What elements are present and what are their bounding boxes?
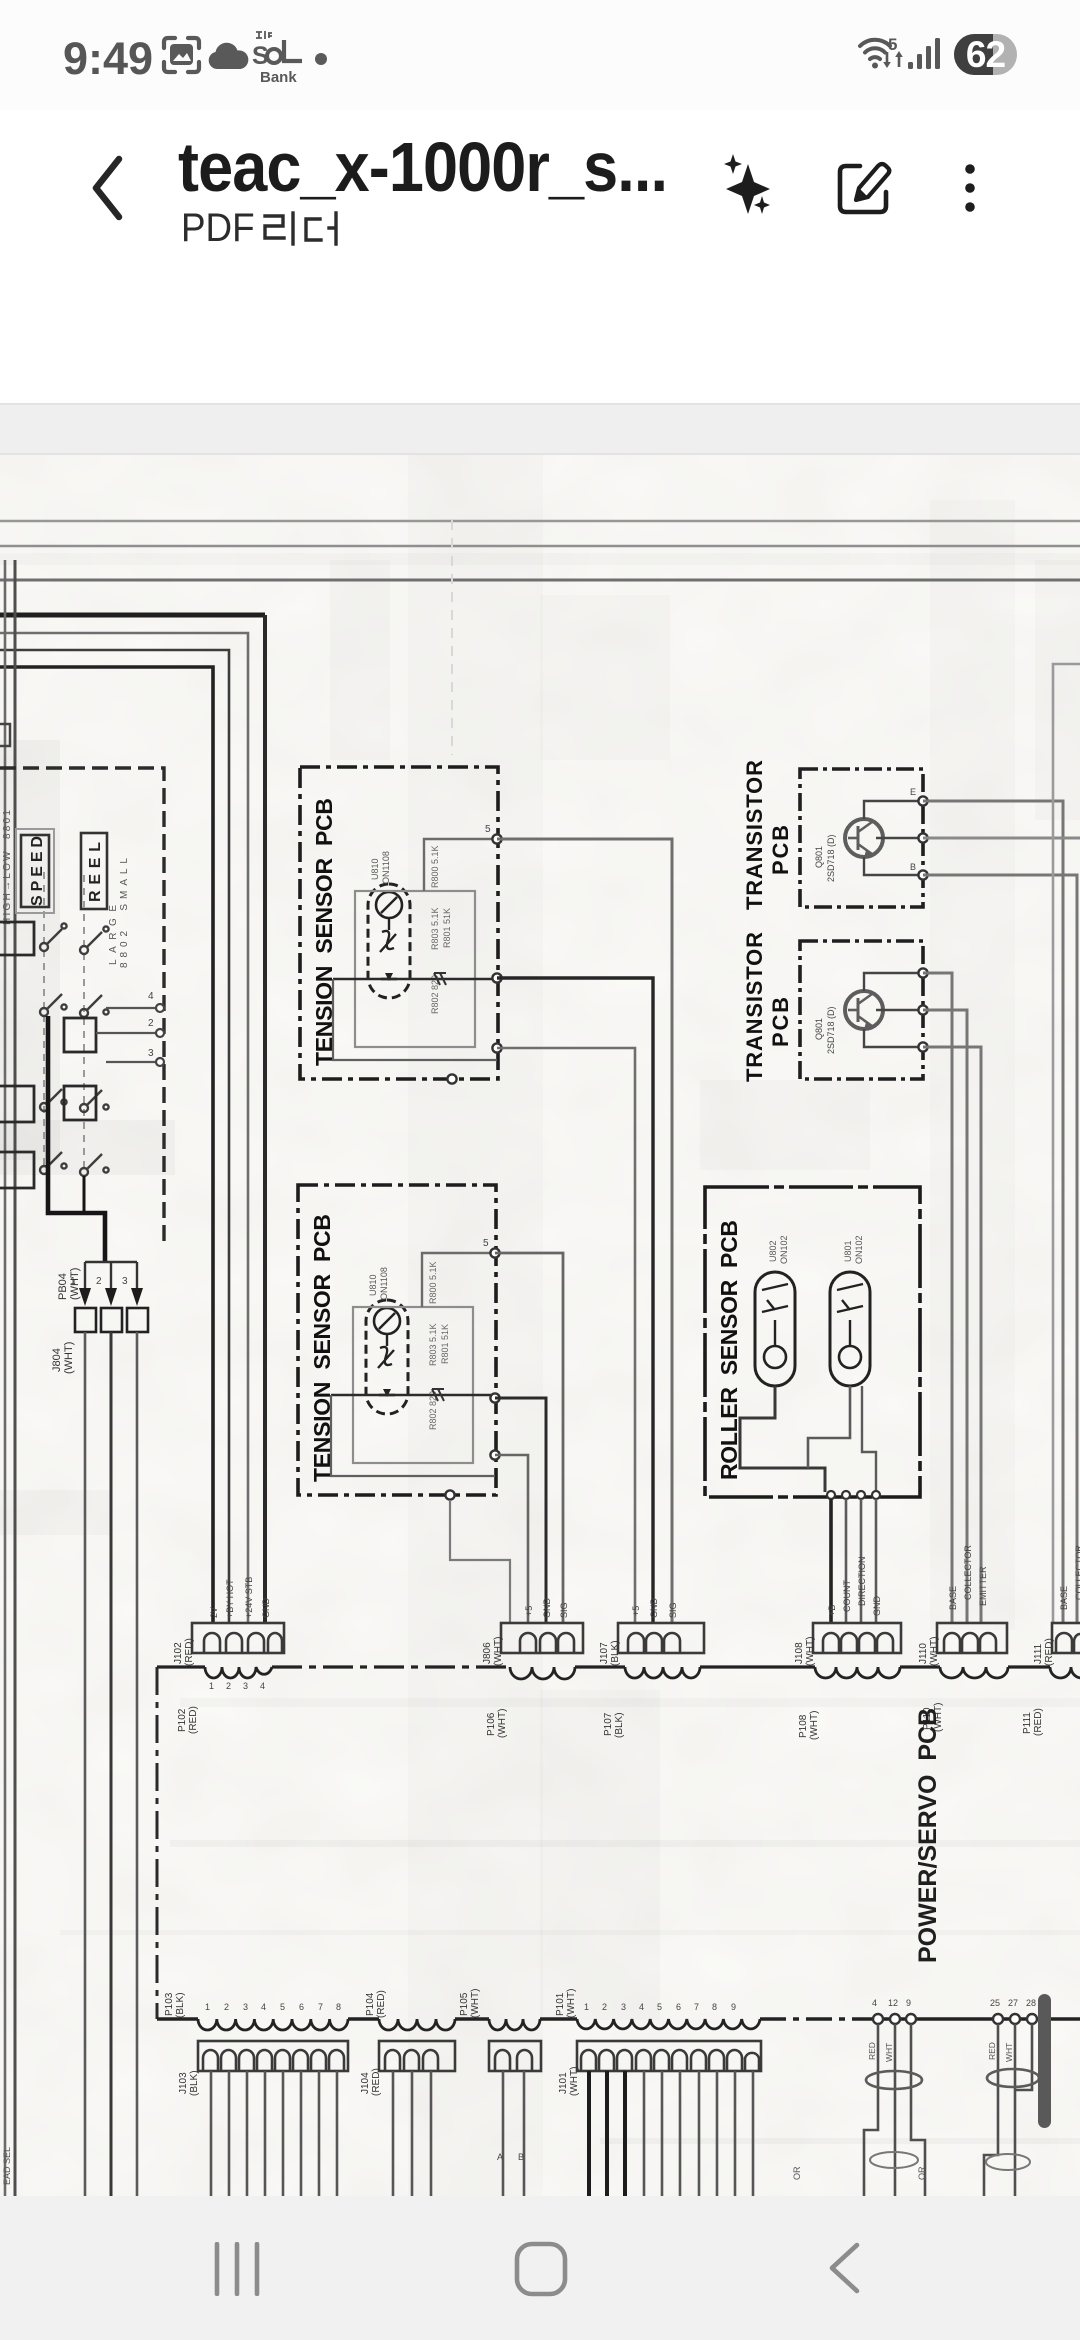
bias network frame R800/R801/R803 xyxy=(355,891,475,1047)
SOL Bank logo xyxy=(250,28,310,86)
svg-text:A: A xyxy=(497,2152,503,2162)
opto sensor U801 capsule xyxy=(830,1272,870,1386)
connector J110 (WHT) xyxy=(937,1623,1007,1653)
svg-text:9: 9 xyxy=(906,1998,911,2008)
light scan streaks xyxy=(0,455,1080,2200)
svg-text:(WHT): (WHT) xyxy=(63,1342,75,1374)
svg-text:SPEED: SPEED xyxy=(29,836,46,906)
svg-text:P108: P108 xyxy=(798,1714,809,1738)
wire Q801 base to J111 xyxy=(923,875,1077,1624)
svg-text:B: B xyxy=(910,862,916,872)
connector J101 (WHT) xyxy=(577,2041,761,2071)
svg-text:J101: J101 xyxy=(558,2072,569,2094)
svg-text:TRANSISTOR: TRANSISTOR xyxy=(742,760,767,910)
switch pole dashed stems xyxy=(43,872,45,1168)
edge coils P104 xyxy=(379,2019,455,2030)
wire GND corner to J102 pin4 xyxy=(0,613,265,618)
wire from J804 pin3 down xyxy=(136,1332,139,2196)
signal bars xyxy=(908,36,944,70)
switch assembly dashed enclosure xyxy=(0,768,164,1248)
wire tension1 pin3 to J107 +5 xyxy=(497,1048,635,1624)
wire tension1 pin5 to J107 SIG xyxy=(497,839,672,1624)
J102 pin numbers xyxy=(209,1681,265,1691)
edge coils P101 xyxy=(577,2019,760,2029)
svg-text:4: 4 xyxy=(261,2002,266,2012)
wire +24V STB corner to J102 pin3 xyxy=(0,633,248,1624)
svg-text:2: 2 xyxy=(226,1681,231,1691)
J104 wires down xyxy=(393,2071,431,2196)
transistor Q801 xyxy=(845,819,883,857)
svg-text:28: 28 xyxy=(1026,1998,1036,2008)
wifi xyxy=(857,34,909,76)
switch S801 SPEED label xyxy=(16,829,54,913)
wire from J804 pin2 down xyxy=(110,1332,113,2196)
svg-text:(WHT): (WHT) xyxy=(493,1637,504,1666)
wire tension2 pin1 down xyxy=(450,1500,510,1624)
wires to enclosure pins xyxy=(96,1008,156,1062)
svg-text:TRANSISTOR: TRANSISTOR xyxy=(742,932,767,1082)
wire from right edge down xyxy=(1053,664,1080,1624)
svg-text:SIG: SIG xyxy=(559,1602,569,1618)
svg-text:(RED): (RED) xyxy=(184,1638,195,1666)
svg-text:WHT: WHT xyxy=(884,2043,894,2062)
svg-text:6: 6 xyxy=(676,2002,681,2012)
wire tension2 pin2 to J806 GND xyxy=(495,1398,546,1624)
roller bottom pins xyxy=(827,1491,880,1499)
J105 wires down xyxy=(503,2071,524,2196)
wire roller COUNT to J108 xyxy=(845,1499,848,1624)
wire +BY HOT corner to J102 pin2 xyxy=(0,650,229,1624)
wire tension2 pin3 to J806 +5 xyxy=(495,1455,528,1624)
svg-text:(WHT): (WHT) xyxy=(470,1989,481,2018)
roller internal step wires xyxy=(740,1386,825,1492)
pdf scrollbar xyxy=(1038,1994,1051,2128)
svg-text:+5: +5 xyxy=(631,1606,641,1616)
svg-text:+BY HOT: +BY HOT xyxy=(225,1579,235,1618)
svg-text:GND: GND xyxy=(872,1596,882,1617)
svg-text:J104: J104 xyxy=(360,2072,371,2094)
bias network frame (lower) xyxy=(353,1307,473,1463)
svg-text:2: 2 xyxy=(224,2002,229,2012)
battery pill xyxy=(954,34,1017,75)
svg-text:1: 1 xyxy=(584,2002,589,2012)
svg-text:Q801: Q801 xyxy=(814,1018,824,1040)
small stub box top-left xyxy=(0,724,10,746)
svg-text:(BLK): (BLK) xyxy=(175,1992,186,2018)
svg-text:HIGH→LOW 8801: HIGH→LOW 8801 xyxy=(2,810,13,925)
svg-text:2V: 2V xyxy=(209,1607,219,1618)
svg-text:8: 8 xyxy=(712,2002,717,2012)
svg-text:GND: GND xyxy=(649,1598,659,1619)
pin 3 xyxy=(492,1043,501,1052)
connector J102 (RED) xyxy=(192,1623,284,1653)
wire Q801-2 emitter to J110 BASE column xyxy=(923,973,952,1624)
sparkle icon xyxy=(718,152,778,222)
svg-text:(WHT): (WHT) xyxy=(805,1637,816,1666)
opto sensor U810 capsule xyxy=(368,884,410,998)
internal wire emitter row xyxy=(333,978,497,981)
svg-text:Bank: Bank xyxy=(260,69,297,86)
wire Q801-2 base to J110 xyxy=(923,1047,981,1624)
Q801 pin wires internal xyxy=(864,801,921,875)
power/servo PCB top edge segments xyxy=(157,1665,1050,1668)
svg-text:RED: RED xyxy=(987,2042,997,2060)
faint lower-left second ellipse xyxy=(870,2152,918,2168)
svg-text:(WHT): (WHT) xyxy=(569,2067,580,2096)
svg-text:4: 4 xyxy=(148,991,154,1002)
pin 3 (lower) xyxy=(490,1450,499,1459)
wire 2V corner to J102 pin1 xyxy=(0,667,213,1624)
connector J107 (BLK) xyxy=(618,1623,704,1653)
svg-text:DIRECTION: DIRECTION xyxy=(857,1557,867,1607)
power/servo PCB left edge xyxy=(156,1667,159,2019)
cable bundle ellipse left xyxy=(866,2071,922,2089)
svg-text:+24V STB: +24V STB xyxy=(244,1577,254,1618)
svg-text:P107: P107 xyxy=(603,1712,614,1736)
svg-text:(WHT): (WHT) xyxy=(566,1989,577,2018)
connector J105 (WHT) xyxy=(489,2041,541,2071)
svg-text:U802: U802 xyxy=(768,1240,778,1262)
svg-text:(RED): (RED) xyxy=(188,1706,199,1734)
edge coils J108 xyxy=(815,1667,900,1678)
svg-text:(WHT): (WHT) xyxy=(809,1711,820,1740)
wire tension2 pin5 to J806 SIG xyxy=(495,1253,563,1624)
svg-text:P104: P104 xyxy=(365,1992,376,2016)
svg-text:12: 12 xyxy=(888,1998,898,2008)
svg-text:COUNT: COUNT xyxy=(842,1580,852,1612)
wire Q801 collector off right xyxy=(923,837,1080,840)
svg-text:(WHT): (WHT) xyxy=(497,1709,508,1738)
svg-text:3: 3 xyxy=(122,1276,128,1287)
pin 2 (lower) xyxy=(490,1393,499,1402)
svg-text:5: 5 xyxy=(280,2002,285,2012)
svg-text:PB04: PB04 xyxy=(57,1273,69,1300)
svg-text:3: 3 xyxy=(148,1048,154,1059)
svg-text:COLLECTOR: COLLECTOR xyxy=(963,1545,973,1600)
wires below pins (left group) xyxy=(864,2024,925,2196)
connector J104 (RED) xyxy=(379,2041,455,2071)
svg-text:(BLK): (BLK) xyxy=(614,1712,625,1738)
Q801 pin wires internal (2) xyxy=(864,973,921,1047)
P103 pin numbers xyxy=(205,2002,341,2012)
svg-text:P106: P106 xyxy=(486,1712,497,1736)
connector arrows into J804 xyxy=(79,1288,143,1306)
svg-text:ON102: ON102 xyxy=(779,1235,789,1264)
svg-text:POWER/SERVO PCB: POWER/SERVO PCB xyxy=(914,1708,942,1963)
svg-text:(RED): (RED) xyxy=(371,2068,382,2096)
svg-text:U810: U810 xyxy=(368,1274,378,1296)
svg-text:2SD718 (D): 2SD718 (D) xyxy=(826,1006,836,1054)
svg-text:1: 1 xyxy=(209,1681,214,1691)
pin 2 xyxy=(492,973,501,982)
faint dashed guide xyxy=(451,520,453,755)
svg-text:2: 2 xyxy=(96,1276,102,1287)
wire tension1 pin2 to J107 GND xyxy=(497,978,653,1624)
switch S802 REEL label xyxy=(81,833,107,909)
J101 wires down xyxy=(644,2071,753,2196)
edge coils J107 xyxy=(625,1667,700,1678)
J101 thick wires down xyxy=(589,2071,625,2196)
edge coils J806 xyxy=(510,1667,575,1679)
svg-text:PCB: PCB xyxy=(768,997,793,1047)
svg-text:4: 4 xyxy=(639,2002,644,2012)
internal wire to pin5 xyxy=(424,839,497,891)
svg-text:(WHT): (WHT) xyxy=(929,1637,940,1666)
frame line top C xyxy=(0,579,1080,582)
svg-text:J107: J107 xyxy=(599,1642,610,1664)
svg-text:(RED): (RED) xyxy=(376,1990,387,2018)
svg-text:RED: RED xyxy=(867,2042,877,2060)
svg-text:BASE: BASE xyxy=(948,1586,958,1610)
svg-text:(RED): (RED) xyxy=(1033,1708,1044,1736)
svg-text:U801: U801 xyxy=(843,1240,853,1262)
svg-text:EMITTER: EMITTER xyxy=(978,1566,988,1606)
edit icon xyxy=(836,158,894,218)
svg-text:(RED): (RED) xyxy=(1044,1638,1055,1666)
J103 wires down xyxy=(211,2071,337,2196)
switch contacts column A xyxy=(40,923,67,1174)
connector J804 (WHT) xyxy=(75,1308,148,1332)
svg-text:COLLECTOR: COLLECTOR xyxy=(1074,1545,1080,1600)
svg-text:1: 1 xyxy=(205,2002,210,2012)
svg-text:4: 4 xyxy=(872,1998,877,2008)
wire from J804 pin1 down xyxy=(84,1332,87,2196)
svg-text:OR: OR xyxy=(792,2166,802,2180)
contact step frames xyxy=(0,922,96,1188)
svg-text:3: 3 xyxy=(243,1681,248,1691)
pin 5 xyxy=(492,834,501,843)
inline resistor tick xyxy=(434,973,446,985)
overflow dots xyxy=(958,162,982,214)
svg-text:(BLK): (BLK) xyxy=(189,2070,200,2096)
edge coils P103 xyxy=(198,2019,348,2030)
connector J111 (RED) xyxy=(1052,1623,1080,1653)
svg-text:P102: P102 xyxy=(177,1708,188,1732)
Q801 pins (2) xyxy=(918,968,927,1051)
cable bundle ellipse right xyxy=(987,2069,1039,2087)
roller sensor PCB enclosure xyxy=(705,1187,920,1497)
wire roller DIRECTION to J108 xyxy=(860,1499,863,1624)
svg-text:J102: J102 xyxy=(173,1642,184,1664)
svg-text:7: 7 xyxy=(694,2002,699,2012)
svg-text:7: 7 xyxy=(318,2002,323,2012)
svg-text:8: 8 xyxy=(336,2002,341,2012)
wires below pins (right group) xyxy=(984,2024,1032,2196)
svg-text:GND: GND xyxy=(542,1598,552,1619)
svg-text:ON102: ON102 xyxy=(854,1235,864,1264)
svg-text:25: 25 xyxy=(990,1998,1000,2008)
svg-text:6: 6 xyxy=(299,2002,304,2012)
svg-text:R803 5.1K: R803 5.1K xyxy=(428,1323,438,1366)
pin 5 (lower) xyxy=(490,1248,499,1257)
svg-text:(BLK): (BLK) xyxy=(610,1640,621,1666)
svg-text:J103: J103 xyxy=(178,2072,189,2094)
transistor Q801 (2) xyxy=(845,991,883,1029)
enclosure pin circles xyxy=(156,1004,164,1066)
Q801 pins xyxy=(918,796,927,879)
connector J806 (WHT) xyxy=(501,1623,583,1653)
paper scan noise xyxy=(0,455,1080,2196)
power/servo PCB bottom edge segments xyxy=(157,2017,1080,2020)
svg-text:ON1108: ON1108 xyxy=(379,1267,389,1300)
svg-text:R800 5.1K: R800 5.1K xyxy=(428,1261,438,1304)
connector J103 (BLK) xyxy=(198,2041,348,2071)
svg-text:5: 5 xyxy=(888,35,897,54)
edge coils J110 xyxy=(940,1667,1008,1678)
svg-text:BASE: BASE xyxy=(1059,1586,1069,1610)
svg-text:+5: +5 xyxy=(524,1606,534,1616)
left bus wire pair xyxy=(4,560,7,2196)
pin 1 bottom xyxy=(447,1074,456,1083)
svg-text:J111: J111 xyxy=(1033,1643,1044,1664)
svg-text:R801 51K: R801 51K xyxy=(440,1324,450,1364)
internal wire emitter row (lower) xyxy=(331,1394,495,1397)
svg-text:P105: P105 xyxy=(459,1992,470,2016)
svg-text:PCB: PCB xyxy=(768,825,793,875)
svg-text:P111: P111 xyxy=(1022,1712,1033,1734)
svg-text:1: 1 xyxy=(70,1276,76,1287)
wire roller +B to J108 xyxy=(829,1499,833,1624)
edge coils P105 xyxy=(489,2019,540,2030)
svg-text:E: E xyxy=(910,787,916,797)
wire roller GND to J108 xyxy=(875,1499,878,1624)
edge coils J102 xyxy=(205,1667,272,1678)
opto sensor U810 capsule (lower) xyxy=(366,1300,408,1414)
svg-text:R803 5.1K: R803 5.1K xyxy=(430,907,440,950)
tension sensor PCB 2 enclosure xyxy=(298,1185,496,1495)
connector J108 (WHT) xyxy=(813,1623,901,1653)
svg-text:4: 4 xyxy=(260,1681,265,1691)
internal wire to pin5 (lower) xyxy=(422,1253,495,1307)
svg-text:+B: +B xyxy=(827,1605,837,1616)
svg-text:2: 2 xyxy=(602,2002,607,2012)
svg-text:2SD718 (D): 2SD718 (D) xyxy=(826,834,836,882)
bottom edge pins right group xyxy=(993,2014,1037,2024)
svg-text:P103: P103 xyxy=(164,1992,175,2016)
svg-text:27: 27 xyxy=(1008,1998,1018,2008)
svg-text:5: 5 xyxy=(657,2002,662,2012)
switch contacts column B xyxy=(80,926,109,1176)
opto sensor U802 capsule xyxy=(755,1272,795,1386)
svg-text:GND: GND xyxy=(261,1598,271,1619)
svg-text:3: 3 xyxy=(243,2002,248,2012)
transistor PCB 1 enclosure xyxy=(800,769,923,907)
svg-text:J806: J806 xyxy=(482,1642,493,1664)
svg-text:3: 3 xyxy=(621,2002,626,2012)
bottom edge pins P140 group xyxy=(873,2014,916,2024)
svg-text:SIG: SIG xyxy=(668,1602,678,1618)
edge coils J111 xyxy=(1050,1667,1080,1678)
svg-text:WHT: WHT xyxy=(1004,2043,1014,2062)
pin 1 bottom (lower) xyxy=(445,1490,454,1499)
svg-text:EAD SEL: EAD SEL xyxy=(2,2147,12,2185)
svg-text:J804: J804 xyxy=(51,1348,63,1372)
wire Q801-2 collector to J110 xyxy=(923,1010,967,1624)
wire Q801 emitter to J111 xyxy=(923,801,1063,1624)
svg-text:OR: OR xyxy=(917,2166,927,2180)
transistor PCB 2 enclosure xyxy=(800,941,923,1079)
svg-text:B: B xyxy=(518,2152,524,2162)
frame line top A xyxy=(0,520,1080,523)
svg-text:J108: J108 xyxy=(794,1642,805,1664)
svg-text:2: 2 xyxy=(148,1018,154,1029)
svg-text:9: 9 xyxy=(731,2002,736,2012)
svg-text:R800 5.1K: R800 5.1K xyxy=(430,845,440,888)
tension sensor PCB 1 enclosure xyxy=(300,767,498,1079)
svg-text:ON1108: ON1108 xyxy=(381,851,391,884)
svg-text:5: 5 xyxy=(483,1238,489,1249)
frame line top B xyxy=(0,545,1080,548)
svg-text:U810: U810 xyxy=(370,858,380,880)
thick bus from switch to PB04 xyxy=(48,1016,105,1262)
svg-text:5: 5 xyxy=(485,824,491,835)
P101 pin numbers xyxy=(584,2002,736,2012)
svg-text:R801 51K: R801 51K xyxy=(442,908,452,948)
svg-text:P101: P101 xyxy=(555,1992,566,2016)
hangul 리더 drawn xyxy=(262,211,372,249)
svg-text:J110: J110 xyxy=(918,1643,929,1664)
svg-text:Q801: Q801 xyxy=(814,846,824,868)
svg-text:ROLLER SENSOR PCB: ROLLER SENSOR PCB xyxy=(716,1220,742,1480)
